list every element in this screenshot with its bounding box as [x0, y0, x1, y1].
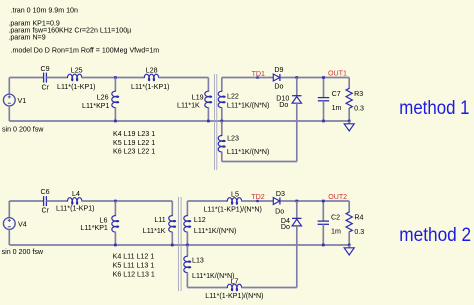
svg-text:K5 L11 L13 1: K5 L11 L13 1 [113, 262, 155, 270]
inductor L22 secondary [221, 78, 223, 92]
inductor L19 primary [207, 78, 209, 92]
svg-text:L23: L23 [227, 134, 239, 142]
svg-text:method 2: method 2 [399, 225, 471, 246]
svg-text:L11*(1-KP1): L11*(1-KP1) [131, 83, 170, 91]
diode D10 [296, 78, 298, 96]
wire L12 top to L5 [187, 200, 227, 202]
wire D9 to OUT1 rail [281, 77, 350, 79]
svg-text:K6 L23 L22 1: K6 L23 L22 1 [113, 148, 155, 156]
inductor L7 [227, 284, 241, 291]
junction L6 bottom [114, 244, 117, 247]
svg-text:L11*1K: L11*1K [143, 227, 166, 235]
junction C7 top [322, 76, 325, 79]
svg-text:D3: D3 [276, 190, 285, 198]
svg-text:L11*1K: L11*1K [177, 101, 200, 109]
svg-text:L11*(1-KP1): L11*(1-KP1) [56, 205, 95, 213]
svg-text:C2: C2 [331, 214, 340, 222]
svg-text:K5 L19 L22 1: K5 L19 L22 1 [113, 139, 155, 147]
junction node L26 top [114, 76, 117, 79]
svg-text:L7: L7 [231, 277, 239, 285]
resistor R3 [348, 78, 350, 89]
svg-text:OUT1: OUT1 [328, 69, 347, 77]
svg-text:Cr: Cr [42, 84, 50, 92]
svg-text:0.3: 0.3 [354, 105, 364, 113]
inductor L4 [68, 198, 82, 205]
junction L6 top [114, 200, 117, 203]
junction C2 top [322, 200, 325, 203]
svg-text:L11*1K/(N*N): L11*1K/(N*N) [227, 148, 269, 156]
wire L28 to L19 [158, 77, 208, 79]
svg-text:Do: Do [274, 83, 283, 91]
svg-text:sin 0 200 fsw: sin 0 200 fsw [2, 248, 44, 256]
svg-text:Do: Do [281, 223, 290, 231]
svg-text:C7: C7 [332, 90, 341, 98]
junction R4 bottom [348, 244, 351, 247]
svg-text:L26: L26 [97, 94, 109, 102]
svg-text:R4: R4 [354, 214, 363, 222]
wire L25 to L28 [82, 77, 145, 79]
svg-text:1m: 1m [331, 228, 341, 236]
svg-text:L5: L5 [231, 191, 239, 199]
svg-text:.model Do D Ron=1m Roff = 100M: .model Do D Ron=1m Roff = 100Meg Vfwd=1m [11, 46, 160, 54]
junction D4 branch top [295, 200, 298, 203]
svg-text:C9: C9 [41, 65, 50, 73]
svg-text:V1: V1 [18, 97, 27, 105]
ground method 2 [348, 245, 350, 248]
svg-text:L22: L22 [227, 92, 239, 100]
inductor L28 [144, 74, 158, 81]
svg-text:Do: Do [279, 101, 288, 109]
svg-text:L11*1K/(N*N): L11*1K/(N*N) [194, 227, 236, 235]
svg-text:method 1: method 1 [399, 98, 469, 119]
bottom rail method 1 [9, 120, 349, 122]
svg-text:K6 L12 L13 1: K6 L12 L13 1 [113, 270, 155, 278]
inductor L26 shunt [114, 78, 116, 92]
inductor L23 secondary [221, 121, 223, 136]
svg-text:L11*(1-KP1)/(N*N): L11*(1-KP1)/(N*N) [204, 205, 262, 213]
svg-text:R3: R3 [354, 90, 363, 98]
svg-text:L11*KP1: L11*KP1 [80, 224, 108, 232]
diode D4 [296, 201, 298, 218]
inductor L12 secondary [186, 201, 188, 216]
inductor L6 shunt [114, 201, 116, 216]
capacitor C9 [43, 73, 45, 83]
capacitor C2 [322, 201, 324, 221]
bottom rail method 2 [9, 244, 349, 246]
transformer core method 1 [214, 74, 216, 170]
svg-text:Do: Do [275, 208, 284, 216]
junction center tap L22 L23 [220, 120, 223, 123]
resistor R4 [348, 201, 350, 212]
svg-text:L6: L6 [100, 216, 108, 224]
junction L11 bottom [171, 244, 174, 247]
svg-text:L11*1K/(N*N): L11*1K/(N*N) [227, 102, 269, 110]
wire C6 to L4 [46, 200, 67, 202]
junction C2 bottom [322, 244, 325, 247]
junction L19 bottom [207, 120, 210, 123]
junction L26 bottom [114, 120, 117, 123]
svg-text:Cr: Cr [42, 207, 50, 215]
wire top rail to C9 [9, 77, 43, 79]
wire D3 to OUT2 rail [281, 200, 350, 202]
svg-text:L28: L28 [146, 66, 158, 74]
wire L23 bottom to D10 anode [222, 161, 297, 163]
svg-text:L11*KP1: L11*KP1 [82, 102, 110, 110]
svg-text:D9: D9 [274, 66, 283, 74]
svg-text:K4 L11 L12 1: K4 L11 L12 1 [113, 253, 155, 261]
capacitor C7 [323, 78, 325, 98]
svg-text:0.3: 0.3 [354, 228, 364, 236]
wire secondary top to D9 [222, 77, 273, 79]
svg-text:L25: L25 [71, 67, 83, 75]
voltage source V4 [8, 201, 10, 218]
junction D10 branch top [295, 76, 298, 79]
wire C9 to L25 [46, 77, 67, 79]
diode D3 [273, 198, 279, 205]
svg-text:C6: C6 [41, 188, 50, 196]
junction center tap L12 L13 [186, 244, 189, 247]
svg-text:L19: L19 [192, 93, 204, 101]
svg-text:OUT2: OUT2 [328, 193, 347, 201]
svg-text:L11: L11 [154, 216, 165, 224]
wire top rail to C6 [9, 200, 43, 202]
svg-text:L4: L4 [72, 190, 80, 198]
svg-text:L13: L13 [192, 257, 204, 265]
inductor L25 [68, 74, 82, 81]
inductor L13 secondary [186, 245, 188, 256]
svg-text:K4 L19 L23 1: K4 L19 L23 1 [113, 130, 155, 138]
voltage source V1 [8, 78, 10, 95]
svg-text:L11*(1-KP1): L11*(1-KP1) [57, 83, 96, 91]
svg-text:sin 0 200 fsw: sin 0 200 fsw [2, 125, 44, 133]
junction R3 bottom [348, 120, 351, 123]
wire L13 bottom to L7 [187, 287, 227, 289]
svg-text:L11*1K/(N*N): L11*1K/(N*N) [192, 272, 234, 280]
svg-text:V4: V4 [18, 220, 27, 228]
inductor L5 [227, 198, 241, 205]
capacitor C6 [43, 196, 45, 206]
wire L5 to D3 [241, 200, 273, 202]
svg-text:L11*(1-KP1)/(N*N): L11*(1-KP1)/(N*N) [205, 292, 263, 300]
wire L4 to L11 [82, 200, 173, 202]
wire L7 to D4 anode [241, 287, 296, 289]
junction C7 bottom [322, 120, 325, 123]
svg-text:.tran 0 10m 9.9m 10n: .tran 0 10m 9.9m 10n [11, 6, 78, 14]
ground method 1 [348, 121, 350, 124]
svg-text:L12: L12 [194, 216, 206, 224]
diode D9 [273, 74, 279, 81]
svg-text:.param N=9: .param N=9 [8, 34, 45, 42]
transformer core method 2 [177, 197, 179, 291]
inductor L11 primary [171, 201, 173, 216]
svg-text:1m: 1m [332, 104, 342, 112]
